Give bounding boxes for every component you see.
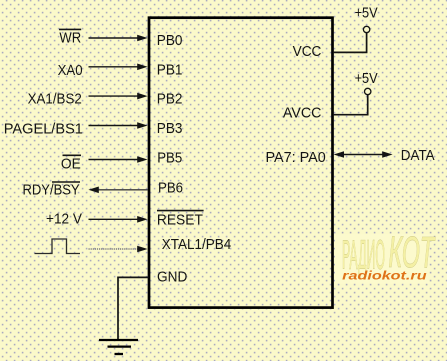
- clock pulse symbol: [35, 239, 81, 254]
- wire PAGEL/BS1 arrow into PB3: [89, 125, 140, 127]
- svg-text:PA7: PA0: PA7: PA0: [266, 150, 326, 166]
- wire GND to ground: [118, 277, 149, 339]
- svg-text:DATA: DATA: [401, 148, 435, 164]
- svg-text:XA1/BS2: XA1/BS2: [28, 91, 82, 107]
- overline of OE: [63, 154, 82, 156]
- svg-text:+5V: +5V: [355, 71, 378, 87]
- wire +5V to AVCC: [333, 95, 368, 115]
- wire XA1/BS2 arrow into PB2: [89, 95, 140, 97]
- svg-text:PB0: PB0: [157, 33, 183, 49]
- wire +12V arrow into RESET: [89, 218, 140, 220]
- wire XA0 arrow into PB1: [89, 66, 140, 68]
- svg-text:VCC: VCC: [293, 44, 322, 60]
- svg-text:PB2: PB2: [157, 92, 183, 108]
- overline of BSY: [52, 181, 80, 183]
- svg-text:WR: WR: [59, 31, 81, 47]
- svg-text:AVCC: AVCC: [283, 105, 322, 121]
- wire +5V to VCC: [333, 33, 367, 52]
- overline of RESET: [157, 210, 204, 212]
- +5V terminal circle (VCC): [363, 26, 369, 32]
- ground symbol: [99, 339, 138, 341]
- svg-text:PAGEL/BS1: PAGEL/BS1: [4, 122, 83, 138]
- +5V terminal circle (AVCC): [365, 88, 371, 94]
- svg-text:+5V: +5V: [355, 6, 378, 22]
- svg-text:RDY/BSY: RDY/BSY: [23, 183, 80, 199]
- svg-text:radiokot.ru: radiokot.ru: [342, 269, 427, 283]
- IC U1 body: [149, 18, 333, 308]
- svg-text:XA0: XA0: [58, 63, 83, 79]
- wire DATA bus double arrow: [341, 154, 385, 156]
- svg-text:RESET: RESET: [157, 213, 203, 229]
- svg-text:PB5: PB5: [157, 151, 182, 167]
- wire pulse to XTAL1/PB4 (dotted): [89, 248, 140, 250]
- svg-text:XTAL1/PB4: XTAL1/PB4: [162, 237, 231, 253]
- svg-text:+12 V: +12 V: [46, 211, 82, 227]
- wire PB6 to RDY/BSY (dotted, arrow to the left): [97, 189, 148, 191]
- svg-text:OE: OE: [61, 156, 81, 172]
- logo Radio КОТ: [335, 228, 436, 284]
- svg-text:PB6: PB6: [158, 180, 183, 196]
- svg-text:PB3: PB3: [157, 121, 183, 137]
- wire OE arrow into PB5: [89, 159, 140, 161]
- wire WR arrow into PB0: [89, 37, 140, 39]
- overline of WR: [59, 28, 81, 30]
- svg-text:PB1: PB1: [157, 62, 183, 78]
- svg-text:GND: GND: [157, 270, 187, 286]
